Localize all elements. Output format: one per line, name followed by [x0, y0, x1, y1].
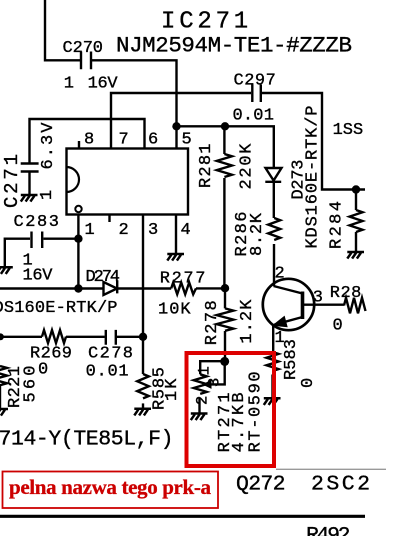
- svg-text:4: 4: [181, 221, 191, 240]
- svg-text:2: 2: [275, 265, 285, 284]
- resistor R221 half cut at edge: [0, 366, 7, 409]
- ground C283 cut: [0, 267, 13, 274]
- gray separator line: [276, 468, 386, 470]
- wire C270 left lead from top edge: [45, 0, 80, 60]
- wire R281 bottom to node: [223, 178, 225, 288]
- wire R278 bottom: [224, 331, 226, 361]
- resistor R278: [217, 308, 234, 330]
- svg-text:3: 3: [206, 378, 224, 387]
- wire R269 C278 line: [0, 336, 42, 338]
- node RT271: [220, 357, 229, 366]
- wire Q272 emitter: [272, 324, 274, 352]
- wire bus to D273: [177, 126, 274, 168]
- ground R585: [134, 409, 151, 416]
- svg-text:3: 3: [148, 221, 158, 240]
- wire pin7 C297 net: [111, 93, 251, 149]
- wire R583 to ground: [271, 375, 273, 399]
- wire R269 to C278: [66, 336, 105, 338]
- svg-text:R281: R281: [197, 144, 216, 189]
- svg-text:C271: C271: [1, 154, 23, 208]
- ground R221 cut: [0, 409, 8, 416]
- svg-text:2SC2: 2SC2: [311, 473, 370, 497]
- svg-text:3: 3: [313, 289, 323, 308]
- node R277/R278: [221, 284, 229, 292]
- svg-text:0: 0: [333, 317, 343, 336]
- svg-text:pelna nazwa tego prk-a: pelna nazwa tego prk-a: [9, 475, 212, 499]
- svg-text:0.01: 0.01: [233, 107, 274, 126]
- capacitor C297: [252, 85, 260, 103]
- red highlight box RT271: [187, 353, 275, 466]
- wire R281 chain: [223, 126, 225, 154]
- svg-text:1: 1: [38, 190, 57, 200]
- potentiometer RT271: [200, 361, 225, 374]
- svg-text:16V: 16V: [23, 267, 54, 286]
- wire C278 to node: [117, 336, 143, 338]
- thick bottom line: [0, 515, 365, 518]
- svg-text:R284: R284: [328, 201, 347, 249]
- svg-text:220K: 220K: [238, 143, 257, 190]
- node C278/pin3: [139, 333, 147, 341]
- svg-text:560: 560: [22, 366, 41, 403]
- node D274/pin1: [74, 284, 82, 292]
- capacitor C278: [106, 330, 116, 345]
- svg-text:6: 6: [148, 131, 158, 150]
- svg-text:8: 8: [84, 131, 94, 150]
- svg-text:C278: C278: [88, 345, 133, 364]
- svg-text:2: 2: [194, 396, 212, 405]
- svg-text:R278: R278: [203, 300, 222, 345]
- svg-text:RT-0590: RT-0590: [247, 371, 266, 452]
- svg-text:0.01: 0.01: [86, 363, 129, 382]
- diode D273: [265, 168, 281, 182]
- ground RT271: [191, 414, 208, 421]
- wire C283 left to ground: [5, 239, 30, 268]
- pin 2 stub: [108, 215, 110, 223]
- svg-text:8.2K: 8.2K: [248, 212, 267, 256]
- svg-text:R269: R269: [30, 345, 72, 364]
- wire D274 to R277: [118, 287, 171, 289]
- svg-text:1K: 1K: [163, 378, 182, 401]
- arrow emitter Q272: [272, 316, 288, 328]
- svg-text:714-Y(TE85L,F): 714-Y(TE85L,F): [0, 428, 174, 452]
- svg-text:7: 7: [119, 131, 129, 150]
- resistor R281: [217, 154, 232, 177]
- svg-text:KDS160E-RTK/P: KDS160E-RTK/P: [304, 106, 323, 249]
- pin 8 stub: [78, 141, 80, 149]
- wire R286 to Q272 collector: [273, 244, 275, 286]
- svg-text:R277: R277: [160, 270, 206, 289]
- resistor R269: [42, 330, 66, 343]
- wire C297 right to R284: [262, 93, 365, 190]
- svg-text:C283: C283: [14, 213, 60, 232]
- svg-text:1: 1: [196, 366, 214, 375]
- svg-text:10K: 10K: [158, 301, 191, 320]
- IC271 body: [67, 149, 189, 215]
- svg-text:6.3V: 6.3V: [39, 122, 58, 170]
- wire D273 to R286: [273, 182, 275, 218]
- resistor R28: [344, 298, 366, 314]
- svg-text:C270: C270: [63, 39, 104, 58]
- ground R583: [264, 398, 281, 405]
- node pin5/C270: [172, 122, 180, 130]
- diode D274: [104, 280, 118, 295]
- capacitor C283: [32, 232, 43, 249]
- wire D274 anode: [0, 287, 104, 289]
- svg-text:16V: 16V: [88, 75, 119, 94]
- transistor Q272: [263, 279, 314, 330]
- svg-text:1.2K: 1.2K: [238, 299, 257, 344]
- svg-text:R28: R28: [330, 284, 362, 303]
- pin 4 wire: [175, 215, 177, 255]
- svg-text:1: 1: [85, 221, 95, 240]
- node R281 top: [221, 122, 229, 130]
- node R284 top: [352, 185, 360, 193]
- svg-text:C297: C297: [234, 72, 276, 91]
- capacitor C271: [21, 164, 39, 196]
- resistor R277: [171, 283, 196, 295]
- svg-text:Q272: Q272: [236, 473, 286, 497]
- resistor R284: [350, 190, 363, 253]
- node R269 left edge: [0, 333, 4, 340]
- svg-text:DS160E-RTK/P: DS160E-RTK/P: [0, 299, 118, 318]
- ground R284: [347, 252, 364, 259]
- svg-text:R583: R583: [282, 339, 301, 380]
- wire pin1 down: [77, 215, 79, 289]
- svg-text:5: 5: [182, 131, 192, 150]
- svg-text:IC271: IC271: [161, 9, 252, 36]
- wire R585 to ground: [142, 403, 144, 408]
- arrow RT271 wiper: [202, 380, 212, 389]
- node C283/pin1: [74, 235, 82, 243]
- wire C270 right to pin5 vertical: [92, 60, 177, 148]
- resistor R585: [137, 374, 149, 398]
- svg-text:2: 2: [119, 221, 129, 240]
- ground pin4: [167, 254, 184, 261]
- svg-text:NJM2594M-TE1-#ZZZB: NJM2594M-TE1-#ZZZB: [116, 33, 352, 59]
- svg-text:0: 0: [299, 378, 318, 388]
- wire node to R278: [224, 288, 226, 308]
- wire R277 right: [196, 287, 225, 289]
- capacitor C270: [81, 52, 91, 70]
- svg-text:R492: R492: [306, 524, 351, 536]
- svg-text:1: 1: [64, 75, 74, 94]
- svg-text:1SS: 1SS: [333, 121, 364, 140]
- wire C271 to pin6: [30, 119, 145, 163]
- ground C271: [21, 195, 38, 202]
- red annotation box: [3, 472, 219, 509]
- resistor R286: [268, 218, 280, 240]
- wire pin3 down: [142, 215, 144, 375]
- ground symbols: [0, 195, 364, 420]
- wire C283 right to pin1: [44, 237, 79, 239]
- resistor R583: [267, 352, 279, 371]
- svg-text:D274: D274: [86, 268, 121, 287]
